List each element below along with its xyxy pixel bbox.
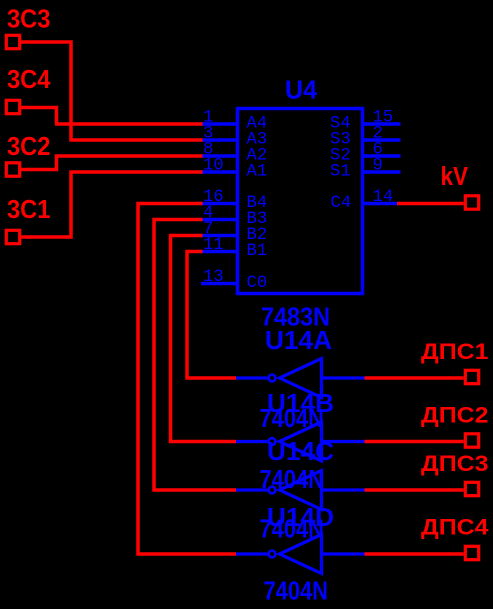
svg-text:11: 11 (203, 236, 224, 255)
svg-text:7404N: 7404N (260, 403, 325, 433)
svg-text:C0: C0 (247, 274, 268, 293)
svg-text:A1: A1 (247, 162, 268, 181)
svg-text:13: 13 (203, 268, 224, 287)
svg-text:U4: U4 (285, 76, 318, 104)
svg-text:kV: kV (441, 163, 469, 191)
svg-text:U14C: U14C (267, 438, 334, 466)
svg-text:3C4: 3C4 (7, 66, 51, 94)
svg-text:B1: B1 (247, 242, 268, 261)
svg-text:10: 10 (203, 157, 224, 176)
svg-text:ДПС1: ДПС1 (421, 339, 489, 364)
svg-text:U14A: U14A (265, 327, 332, 355)
svg-text:7404N: 7404N (260, 464, 325, 494)
svg-text:3C2: 3C2 (7, 133, 51, 161)
svg-text:S1: S1 (330, 162, 351, 181)
svg-text:7404N: 7404N (264, 576, 329, 606)
svg-text:9: 9 (373, 157, 383, 176)
svg-text:7404N: 7404N (260, 513, 325, 543)
svg-text:ДПС3: ДПС3 (421, 451, 489, 476)
svg-text:C4: C4 (331, 194, 352, 213)
svg-text:ДПС2: ДПС2 (421, 403, 489, 428)
svg-text:14: 14 (373, 188, 394, 207)
svg-text:ДПС4: ДПС4 (421, 515, 489, 540)
svg-text:3C1: 3C1 (7, 196, 51, 224)
svg-text:3C3: 3C3 (7, 5, 51, 33)
